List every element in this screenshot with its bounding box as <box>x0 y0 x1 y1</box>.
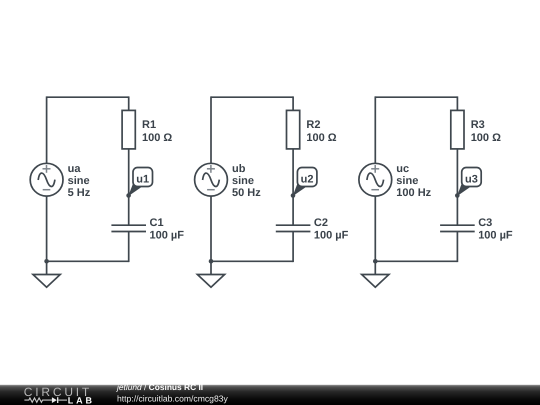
svg-text:u1: u1 <box>136 173 149 185</box>
wire left lower (uc - terminal to ground node) <box>374 196 376 261</box>
svg-text:ua: ua <box>68 163 82 175</box>
wire left upper (uc + terminal) <box>374 96 376 164</box>
svg-text:100 µF: 100 µF <box>314 230 349 242</box>
CircuitLab logo diode symbol <box>52 397 67 403</box>
resistor R2 <box>287 110 300 148</box>
svg-text:jetlund / Cosinus RC II: jetlund / Cosinus RC II <box>116 382 203 392</box>
svg-text:100 Ω: 100 Ω <box>471 132 501 144</box>
svg-text:ub: ub <box>232 163 246 175</box>
wire top horizontal (ub to R2) <box>211 96 293 98</box>
value label: R1 100 Ohm <box>142 119 172 144</box>
wire bottom horizontal (C3 to ground node) <box>375 260 457 262</box>
junction dot at ground node <box>373 259 378 264</box>
junction dot at node u2 <box>291 193 296 198</box>
CircuitLab logo resistor zigzag <box>24 398 52 402</box>
value label: C1 100 uF <box>150 217 185 242</box>
wire right upper (top to R1) <box>128 96 130 111</box>
node label u1 flag <box>128 168 152 197</box>
wire right middle (R3 to C3) through node u3 <box>456 149 458 225</box>
footer bar background <box>0 385 540 405</box>
svg-text:LAB: LAB <box>68 395 95 405</box>
voltage source V3 (uc) <box>359 163 392 196</box>
svg-text:R3: R3 <box>471 119 485 131</box>
value label: ub sine 50 Hz <box>232 163 261 199</box>
node label u3 flag <box>457 168 481 197</box>
capacitor C1 <box>111 225 146 231</box>
wire right lower (C1 to bottom wire) <box>128 232 130 263</box>
junction dot at ground node <box>209 259 214 264</box>
svg-text:R1: R1 <box>142 119 156 131</box>
wire right lower (C2 to bottom wire) <box>292 232 294 263</box>
value label: C2 100 uF <box>314 217 349 242</box>
resistor R1 <box>122 110 135 148</box>
svg-text:C3: C3 <box>478 217 492 229</box>
wire left upper (ub + terminal) <box>210 96 212 164</box>
svg-text:u2: u2 <box>301 173 314 185</box>
junction dot at ground node <box>44 259 49 264</box>
svg-text:sine: sine <box>68 175 90 187</box>
wire bottom horizontal (C1 to ground node) <box>47 260 129 262</box>
wire left lower (ua - terminal to ground node) <box>46 196 48 261</box>
wire bottom horizontal (C2 to ground node) <box>211 260 293 262</box>
value label: ua sine 5 Hz <box>68 163 91 199</box>
capacitor C2 <box>276 225 311 231</box>
svg-text:sine: sine <box>232 175 254 187</box>
svg-text:uc: uc <box>396 163 409 175</box>
junction dot at node u3 <box>455 193 460 198</box>
wire top horizontal (uc to R3) <box>375 96 457 98</box>
value label: C3 100 uF <box>478 217 513 242</box>
value label: R2 100 Ohm <box>306 119 336 144</box>
svg-text:100 µF: 100 µF <box>478 230 513 242</box>
svg-text:50 Hz: 50 Hz <box>232 187 261 199</box>
wire left upper (ua + terminal) <box>46 96 48 164</box>
wire right lower (C3 to bottom wire) <box>456 232 458 263</box>
wire right upper (top to R2) <box>292 96 294 111</box>
wire right upper (top to R3) <box>456 96 458 111</box>
svg-text:100 Ω: 100 Ω <box>306 132 336 144</box>
value label: R3 100 Ohm <box>471 119 501 144</box>
svg-text:R2: R2 <box>306 119 320 131</box>
svg-text:100 µF: 100 µF <box>150 230 185 242</box>
junction dot at node u1 <box>126 193 131 198</box>
svg-text:C1: C1 <box>150 217 164 229</box>
wire left lower (ub - terminal to ground node) <box>210 196 212 261</box>
ground symbol GND1 <box>33 261 60 287</box>
resistor R3 <box>451 110 464 148</box>
voltage source V2 (ub) <box>195 163 228 196</box>
wire right middle (R2 to C2) through node u2 <box>292 149 294 225</box>
svg-text:5 Hz: 5 Hz <box>68 187 91 199</box>
svg-text:100 Ω: 100 Ω <box>142 132 172 144</box>
svg-text:C2: C2 <box>314 217 328 229</box>
svg-text:100 Hz: 100 Hz <box>396 187 431 199</box>
wire right middle (R1 to C1) through node u1 <box>128 149 130 225</box>
ground symbol GND3 <box>362 261 389 287</box>
ground symbol GND2 <box>197 261 224 287</box>
svg-text:u3: u3 <box>465 173 478 185</box>
svg-text:sine: sine <box>396 175 418 187</box>
voltage source V1 (ua) <box>30 163 63 196</box>
capacitor C3 <box>440 225 475 231</box>
value label: uc sine 100 Hz <box>396 163 431 199</box>
wire top horizontal (ua to R1) <box>47 96 129 98</box>
svg-text:http://circuitlab.com/cmcg83y: http://circuitlab.com/cmcg83y <box>117 393 229 403</box>
node label u2 flag <box>293 168 317 197</box>
